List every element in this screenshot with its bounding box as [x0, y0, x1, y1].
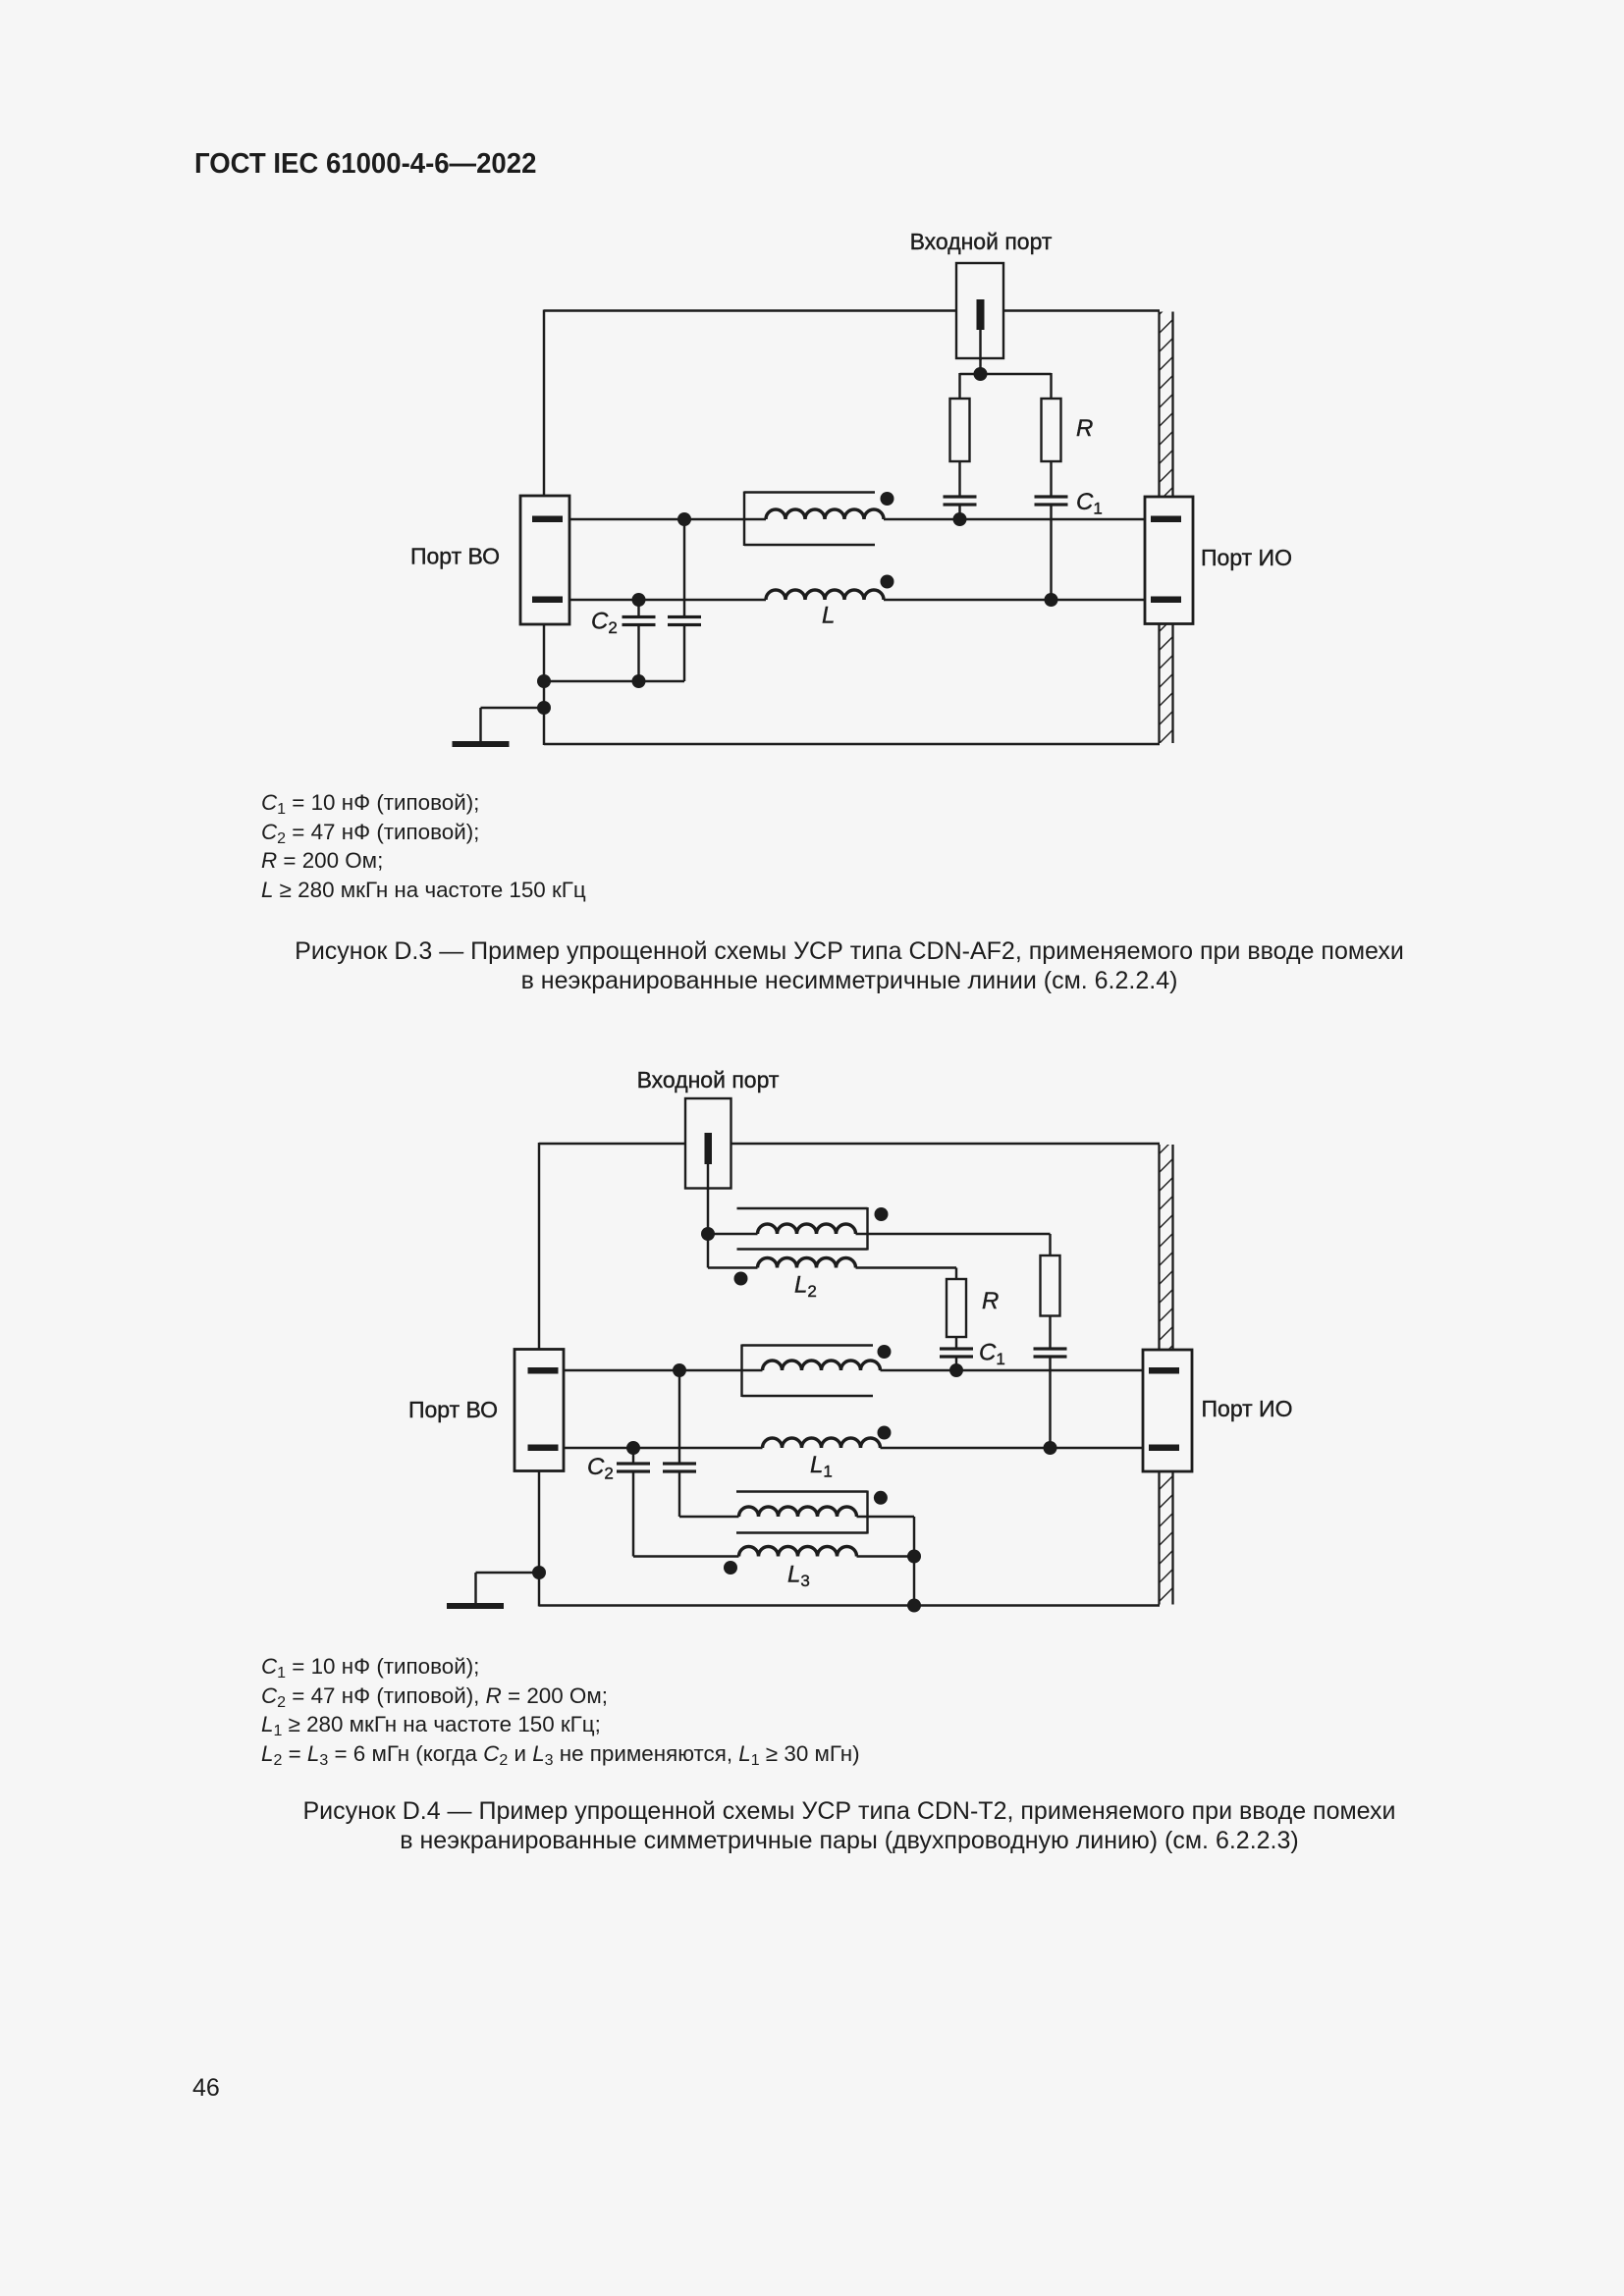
- svg-text:C1: C1: [979, 1340, 1005, 1369]
- svg-text:R: R: [1076, 415, 1093, 442]
- svg-text:Порт ВО: Порт ВО: [408, 1397, 498, 1422]
- svg-text:C2: C2: [587, 1454, 614, 1483]
- svg-text:C1: C1: [1076, 489, 1103, 518]
- svg-text:C2: C2: [591, 609, 618, 638]
- svg-text:L2: L2: [794, 1272, 817, 1302]
- svg-text:Входной порт: Входной порт: [637, 1067, 780, 1093]
- svg-text:L: L: [822, 603, 835, 629]
- svg-text:L3: L3: [787, 1562, 810, 1591]
- svg-text:Порт ИО: Порт ИО: [1201, 545, 1292, 570]
- svg-text:Порт ИО: Порт ИО: [1202, 1396, 1293, 1421]
- svg-text:R: R: [982, 1288, 999, 1314]
- svg-text:Порт ВО: Порт ВО: [410, 544, 500, 569]
- svg-text:Входной порт: Входной порт: [910, 229, 1053, 254]
- svg-text:L1: L1: [810, 1452, 833, 1481]
